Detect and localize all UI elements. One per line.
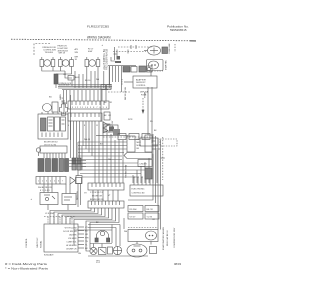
svg-text:RUN CAP BK-12: RUN CAP BK-12 — [166, 229, 169, 246]
wires bottom interconnect — [124, 218, 161, 245]
wiring diagram title — [87, 35, 111, 39]
wire drops bus to J1 — [70, 90, 106, 101]
svg-text:BU: BU — [85, 231, 88, 233]
compressor ellipse — [127, 244, 147, 257]
label above J4 — [90, 199, 104, 201]
connector bar J2 — [68, 113, 102, 121]
label bk or — [104, 102, 113, 104]
wire lamp bottoms bus — [42, 67, 72, 75]
svg-text:WH: WH — [124, 231, 128, 233]
svg-text:7: 7 — [62, 181, 63, 183]
svg-text:TN: TN — [85, 241, 88, 243]
triangle connectors — [103, 122, 109, 133]
left riser line — [100, 90, 102, 122]
vertical label left of adaptive box — [124, 87, 127, 100]
svg-text:BK WH OR: BK WH OR — [92, 196, 103, 198]
labels under J3 — [90, 192, 104, 198]
svg-text:5995266515: 5995266515 — [170, 28, 187, 32]
svg-text:8 7 6 5 4 3: 8 7 6 5 4 3 — [40, 190, 50, 192]
dashed run to defrost heater — [108, 91, 130, 93]
hatched water valve box — [96, 125, 128, 136]
small boxes right of J2 — [104, 112, 110, 132]
svg-text:40W: 40W — [88, 51, 92, 53]
vertical label strip light switch — [102, 49, 109, 70]
wires module block to right — [69, 161, 86, 167]
svg-text:OR: OR — [108, 115, 111, 117]
svg-text:+: + — [102, 44, 104, 47]
svg-text:13 12 11 10 9 8 7 6 5 4: 13 12 11 10 9 8 7 6 5 4 — [70, 107, 108, 109]
dashed control row 1 — [118, 45, 152, 49]
wire color labels scattered — [63, 74, 157, 255]
condenser fan motor M1 — [144, 46, 161, 55]
staircase wires from J4 — [50, 208, 119, 246]
wires into control label box — [133, 177, 151, 185]
pointed bar below ice maker — [124, 153, 152, 159]
solenoid box — [99, 248, 107, 255]
svg-text:WH: WH — [96, 79, 100, 81]
svg-text:BK: BK — [154, 130, 157, 132]
connector bar J1 — [68, 101, 109, 109]
label condenser fan — [168, 43, 171, 54]
svg-text:5: 5 — [68, 125, 69, 127]
svg-text:BK WH OR BU: BK WH OR BU — [44, 142, 58, 144]
weave horizontals — [78, 142, 145, 177]
control board stubs — [78, 227, 84, 248]
svg-text:CAVITY NC: CAVITY NC — [36, 237, 39, 248]
connector bar J3 top — [88, 183, 124, 190]
adaptive defrost control box — [133, 76, 157, 88]
svg-text:8: 8 — [84, 125, 85, 127]
vertical labels right bottom — [162, 227, 165, 250]
small box next — [108, 247, 113, 254]
vertical label defrost — [77, 191, 79, 200]
wire evap to defrost control — [122, 71, 151, 85]
hatch box right cluster — [145, 168, 152, 179]
vertical wires right cluster top — [133, 150, 157, 183]
relay box K1 — [40, 193, 58, 205]
arrow plug symbol — [70, 177, 82, 184]
svg-text:18: 18 — [75, 59, 78, 61]
svg-text:21: 21 — [96, 260, 100, 264]
vertical label compressor — [174, 227, 176, 248]
terminal bar — [40, 146, 67, 153]
page number — [96, 260, 100, 264]
vertical label thermostat — [125, 164, 128, 178]
svg-text:THERMOSTAT: THERMOSTAT — [125, 164, 128, 178]
motor circle with spokes — [113, 246, 121, 254]
svg-text:CRUSH CR: CRUSH CR — [66, 249, 77, 251]
overload box K2 — [62, 194, 76, 205]
wire risers to adaptive control — [110, 66, 122, 92]
svg-text:1: 1 — [38, 181, 39, 183]
vertical label signal — [40, 240, 43, 248]
svg-text:VT GY: VT GY — [130, 217, 137, 219]
connector bar J4 — [88, 201, 124, 208]
svg-text:* = Non-Illustrated Parts: * = Non-Illustrated Parts — [5, 266, 49, 270]
wires crossing heater region — [74, 225, 120, 252]
svg-text:FLRS237ZCB5: FLRS237ZCB5 — [87, 24, 109, 28]
board part number — [44, 254, 54, 257]
wires J2 down left comb — [71, 121, 93, 160]
svg-text:5: 5 — [54, 181, 55, 183]
legend line 1 — [5, 262, 48, 266]
bottom right motor box — [128, 228, 158, 242]
label door switch — [59, 85, 69, 87]
svg-text:OR: OR — [85, 234, 89, 236]
label above L3 — [88, 49, 94, 54]
main wire bus harness — [58, 85, 112, 90]
junction cluster under lamps — [65, 71, 74, 86]
dashed control row 2 — [113, 50, 146, 54]
svg-text:11: 11 — [96, 125, 98, 127]
labels under lamp cluster — [49, 97, 52, 99]
svg-text:BK: BK — [137, 148, 140, 150]
svg-text:AUG: AUG — [75, 76, 80, 79]
ticks above control box — [44, 217, 76, 225]
vertical label run capacitor — [166, 229, 169, 246]
svg-text:MOD: MOD — [137, 145, 142, 147]
label rows under strip — [38, 187, 52, 192]
wires J2 down weave verticals — [95, 121, 123, 183]
svg-text:SW: SW — [75, 52, 78, 54]
ice maker cross shape — [60, 104, 68, 116]
svg-text:6: 6 — [58, 181, 59, 183]
lamp L2 fresh food light — [59, 57, 74, 67]
vertical label orange — [62, 96, 64, 103]
wire risers lamps to bus — [75, 66, 109, 88]
svg-text:2: 2 — [42, 181, 43, 183]
vertical label right of J2 — [111, 120, 114, 132]
text box below bar — [138, 160, 152, 167]
svg-text:CONTROL BD: CONTROL BD — [132, 193, 146, 195]
publication no. label — [167, 25, 189, 29]
svg-text:ELECTRONIC: ELECTRONIC — [132, 189, 145, 191]
svg-text:BK: BK — [85, 248, 88, 250]
text rows above terminal bar — [44, 142, 58, 147]
weave left drops — [78, 142, 82, 176]
terminal strip with squares — [36, 177, 66, 185]
dashed stub right of fan — [174, 44, 176, 52]
vertical label harness — [59, 94, 62, 100]
dashed rule under header — [11, 39, 196, 41]
model number text FLRS237ZCB5 — [87, 24, 109, 28]
dashed enclosure corner top-left — [34, 44, 50, 57]
terminal labels right of control stubs — [85, 227, 89, 250]
svg-text:DOOR SW GN: DOOR SW GN — [63, 231, 77, 233]
terminal row under valve — [103, 134, 150, 140]
label below defrost control — [140, 91, 149, 97]
wires thermostat down right cluster — [148, 87, 152, 143]
svg-text:+: + — [31, 198, 33, 201]
svg-text:FRZ DOOR WH 18: FRZ DOOR WH 18 — [105, 49, 109, 70]
label stack door switch wires — [75, 48, 79, 61]
comb ticks under bar — [44, 153, 65, 158]
svg-text:COMPRESSOR 115V: COMPRESSOR 115V — [174, 227, 176, 248]
svg-text:CUBE SOL: CUBE SOL — [66, 242, 77, 244]
svg-text:T8 BULB: T8 BULB — [45, 52, 54, 54]
vertical text right of dash — [144, 91, 147, 98]
svg-text:HI SIDE TN: HI SIDE TN — [66, 245, 77, 247]
dashed vertical right — [161, 137, 165, 180]
svg-text:1 2 3 4 5 6 7 8: 1 2 3 4 5 6 7 8 — [90, 192, 104, 194]
svg-text:AUGER: AUGER — [69, 234, 77, 237]
svg-text:EVAP FAN: EVAP FAN — [165, 60, 168, 70]
svg-text:BK: BK — [104, 115, 107, 117]
svg-text:EVAPORATOR FAN WH: EVAPORATOR FAN WH — [162, 227, 165, 250]
dispenser control housing — [38, 112, 68, 139]
left edge drops — [78, 184, 148, 256]
wires J3 to J4 — [93, 190, 118, 201]
water valve solenoid circle — [90, 247, 97, 254]
svg-text:BK OR: BK OR — [147, 209, 154, 211]
thermo dashed arrow mid — [142, 98, 144, 113]
wire light switch feed — [108, 64, 136, 66]
svg-text:SIGNAL: SIGNAL — [40, 240, 43, 248]
wire right of dispenser — [70, 95, 72, 140]
svg-text:CRUSH: CRUSH — [140, 164, 148, 166]
label block freezer lights — [58, 46, 69, 55]
svg-text:CONTROL: CONTROL — [26, 237, 28, 248]
svg-text:VT: VT — [108, 195, 111, 197]
electronic control board box — [26, 224, 78, 252]
svg-text:YL: YL — [85, 245, 88, 247]
auger motor M3 — [43, 100, 67, 114]
svg-text:WTR: WTR — [128, 119, 133, 121]
vertical labels left of control — [36, 237, 39, 248]
svg-text:WH 18: WH 18 — [59, 53, 66, 55]
ptc relay box — [150, 247, 157, 254]
strip cell marks — [38, 181, 63, 183]
svg-text:WH BK RD OR: WH BK RD OR — [38, 187, 52, 189]
plus mark left margin — [31, 198, 33, 201]
publication number 5995266515 — [170, 28, 187, 32]
label on bus — [58, 83, 72, 85]
svg-text:RD WH: RD WH — [130, 209, 137, 211]
label evap fan — [165, 60, 168, 70]
lamp L3 freezer light — [85, 57, 100, 67]
right vertical wire runs — [128, 134, 161, 229]
evaporator fan motor M2 — [147, 60, 164, 72]
svg-text:BK: BK — [104, 102, 107, 104]
stacked terminal boxes mid-right — [128, 206, 159, 220]
label junction — [75, 76, 80, 79]
svg-text:CONN BLOCK: CONN BLOCK — [58, 83, 72, 85]
svg-text:DEFROST: DEFROST — [136, 82, 146, 84]
lamp L1 fresh food light — [40, 57, 55, 67]
control boxes row — [123, 66, 152, 72]
stubs ice maker to bundle — [152, 137, 161, 149]
door switch S1 hatched — [54, 74, 58, 88]
svg-text:TSTAT: TSTAT — [144, 91, 147, 98]
svg-text:ICE MKR: ICE MKR — [68, 238, 77, 240]
svg-text:CONTROL: CONTROL — [136, 85, 147, 87]
svg-text:COND FAN: COND FAN — [168, 43, 171, 54]
box with dashed partner — [140, 138, 177, 146]
switch cluster S2 — [111, 50, 121, 64]
legend line 2 — [5, 266, 49, 270]
run capacitor box — [162, 47, 168, 54]
plus mark — [102, 44, 104, 47]
wires under relay boxes — [48, 205, 68, 211]
ice maker module tall boxes — [127, 135, 152, 152]
svg-text:WH-18: WH-18 — [84, 139, 90, 141]
svg-text:WIRING DIAGRAM: WIRING DIAGRAM — [87, 35, 111, 39]
svg-text:BK-16: BK-16 — [85, 80, 90, 82]
svg-text:WH: WH — [85, 238, 89, 240]
svg-text:E2002A09: E2002A09 — [44, 254, 54, 257]
svg-text:08/03: 08/03 — [174, 262, 181, 266]
small box left — [76, 176, 82, 184]
tiny label row — [45, 213, 55, 215]
svg-text:OR: OR — [109, 102, 113, 104]
bus end boxes — [101, 85, 111, 90]
left small motor M4 — [36, 148, 40, 156]
svg-text:WT YELLOW: WT YELLOW — [65, 228, 77, 230]
wires strip to relays — [44, 184, 70, 194]
date code — [174, 262, 181, 266]
svg-text:BU: BU — [49, 97, 52, 99]
svg-text:GY: GY — [84, 193, 87, 195]
svg-text:RD: RD — [150, 121, 153, 123]
svg-text:ATJ: ATJ — [75, 48, 79, 51]
big label box electronic control — [130, 185, 163, 196]
wires bus to ice maker cross — [64, 90, 67, 104]
svg-text:GN: GN — [78, 253, 81, 255]
svg-text:DEF BI-METAL: DEF BI-METAL — [124, 87, 127, 100]
svg-text:ADAPTIVE: ADAPTIVE — [136, 79, 147, 82]
svg-text:4: 4 — [50, 181, 51, 183]
wire control riser — [114, 47, 116, 60]
svg-text:3: 3 — [46, 181, 47, 183]
svg-text:MKR: MKR — [137, 142, 142, 144]
defrost heater horseshoe — [90, 231, 112, 244]
control board pin rows — [63, 228, 77, 251]
label block fresh food lights — [43, 47, 57, 54]
dark module block row — [38, 158, 81, 172]
